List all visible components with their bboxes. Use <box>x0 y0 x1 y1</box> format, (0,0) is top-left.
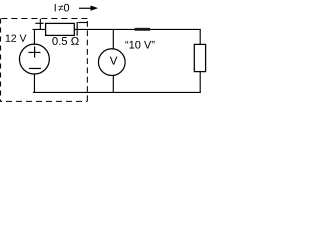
terminal tick, vertical stroke at box exit <box>76 22 78 36</box>
voltmeter V glyph <box>110 57 118 65</box>
current direction arrow shaft <box>79 7 91 9</box>
wire: load resistor bottom lead <box>199 72 201 93</box>
label 0.5 ohm <box>52 37 78 45</box>
current direction arrow head <box>91 6 99 11</box>
terminal tick, horizontal stroke to box corner <box>78 22 87 24</box>
plus sign inside emf source <box>28 47 40 58</box>
dashed battery-model box, left edge <box>0 19 2 102</box>
current label I <box>55 4 56 11</box>
wire: bottom horizontal rail <box>33 91 201 93</box>
current label not-equal sign <box>58 5 63 11</box>
voltmeter circle <box>98 49 125 76</box>
wire: voltmeter top lead <box>112 29 114 49</box>
dashed battery-model box, bottom edge <box>0 100 87 102</box>
current label 0 <box>64 4 69 12</box>
label quoted 10 V reading <box>125 41 154 49</box>
dashed battery-model box, right edge <box>86 21 88 101</box>
internal resistance resistor 0.5 ohm <box>46 23 75 35</box>
wire: battery top lead <box>33 29 35 44</box>
wire: voltmeter bottom lead <box>112 75 114 92</box>
thick connector bar on top wire <box>135 28 151 31</box>
wire: battery bottom lead <box>33 74 35 93</box>
label 12 V <box>6 34 27 41</box>
battery emf source circle (12 V) <box>19 44 49 74</box>
dashed battery-model box, top edge <box>0 18 87 20</box>
minus sign inside emf source <box>29 67 41 69</box>
plus polarity mark on top wire <box>35 19 43 29</box>
wire: load resistor top lead <box>199 29 201 44</box>
load resistor R <box>194 44 205 71</box>
wire: top horizontal rail <box>33 28 201 30</box>
